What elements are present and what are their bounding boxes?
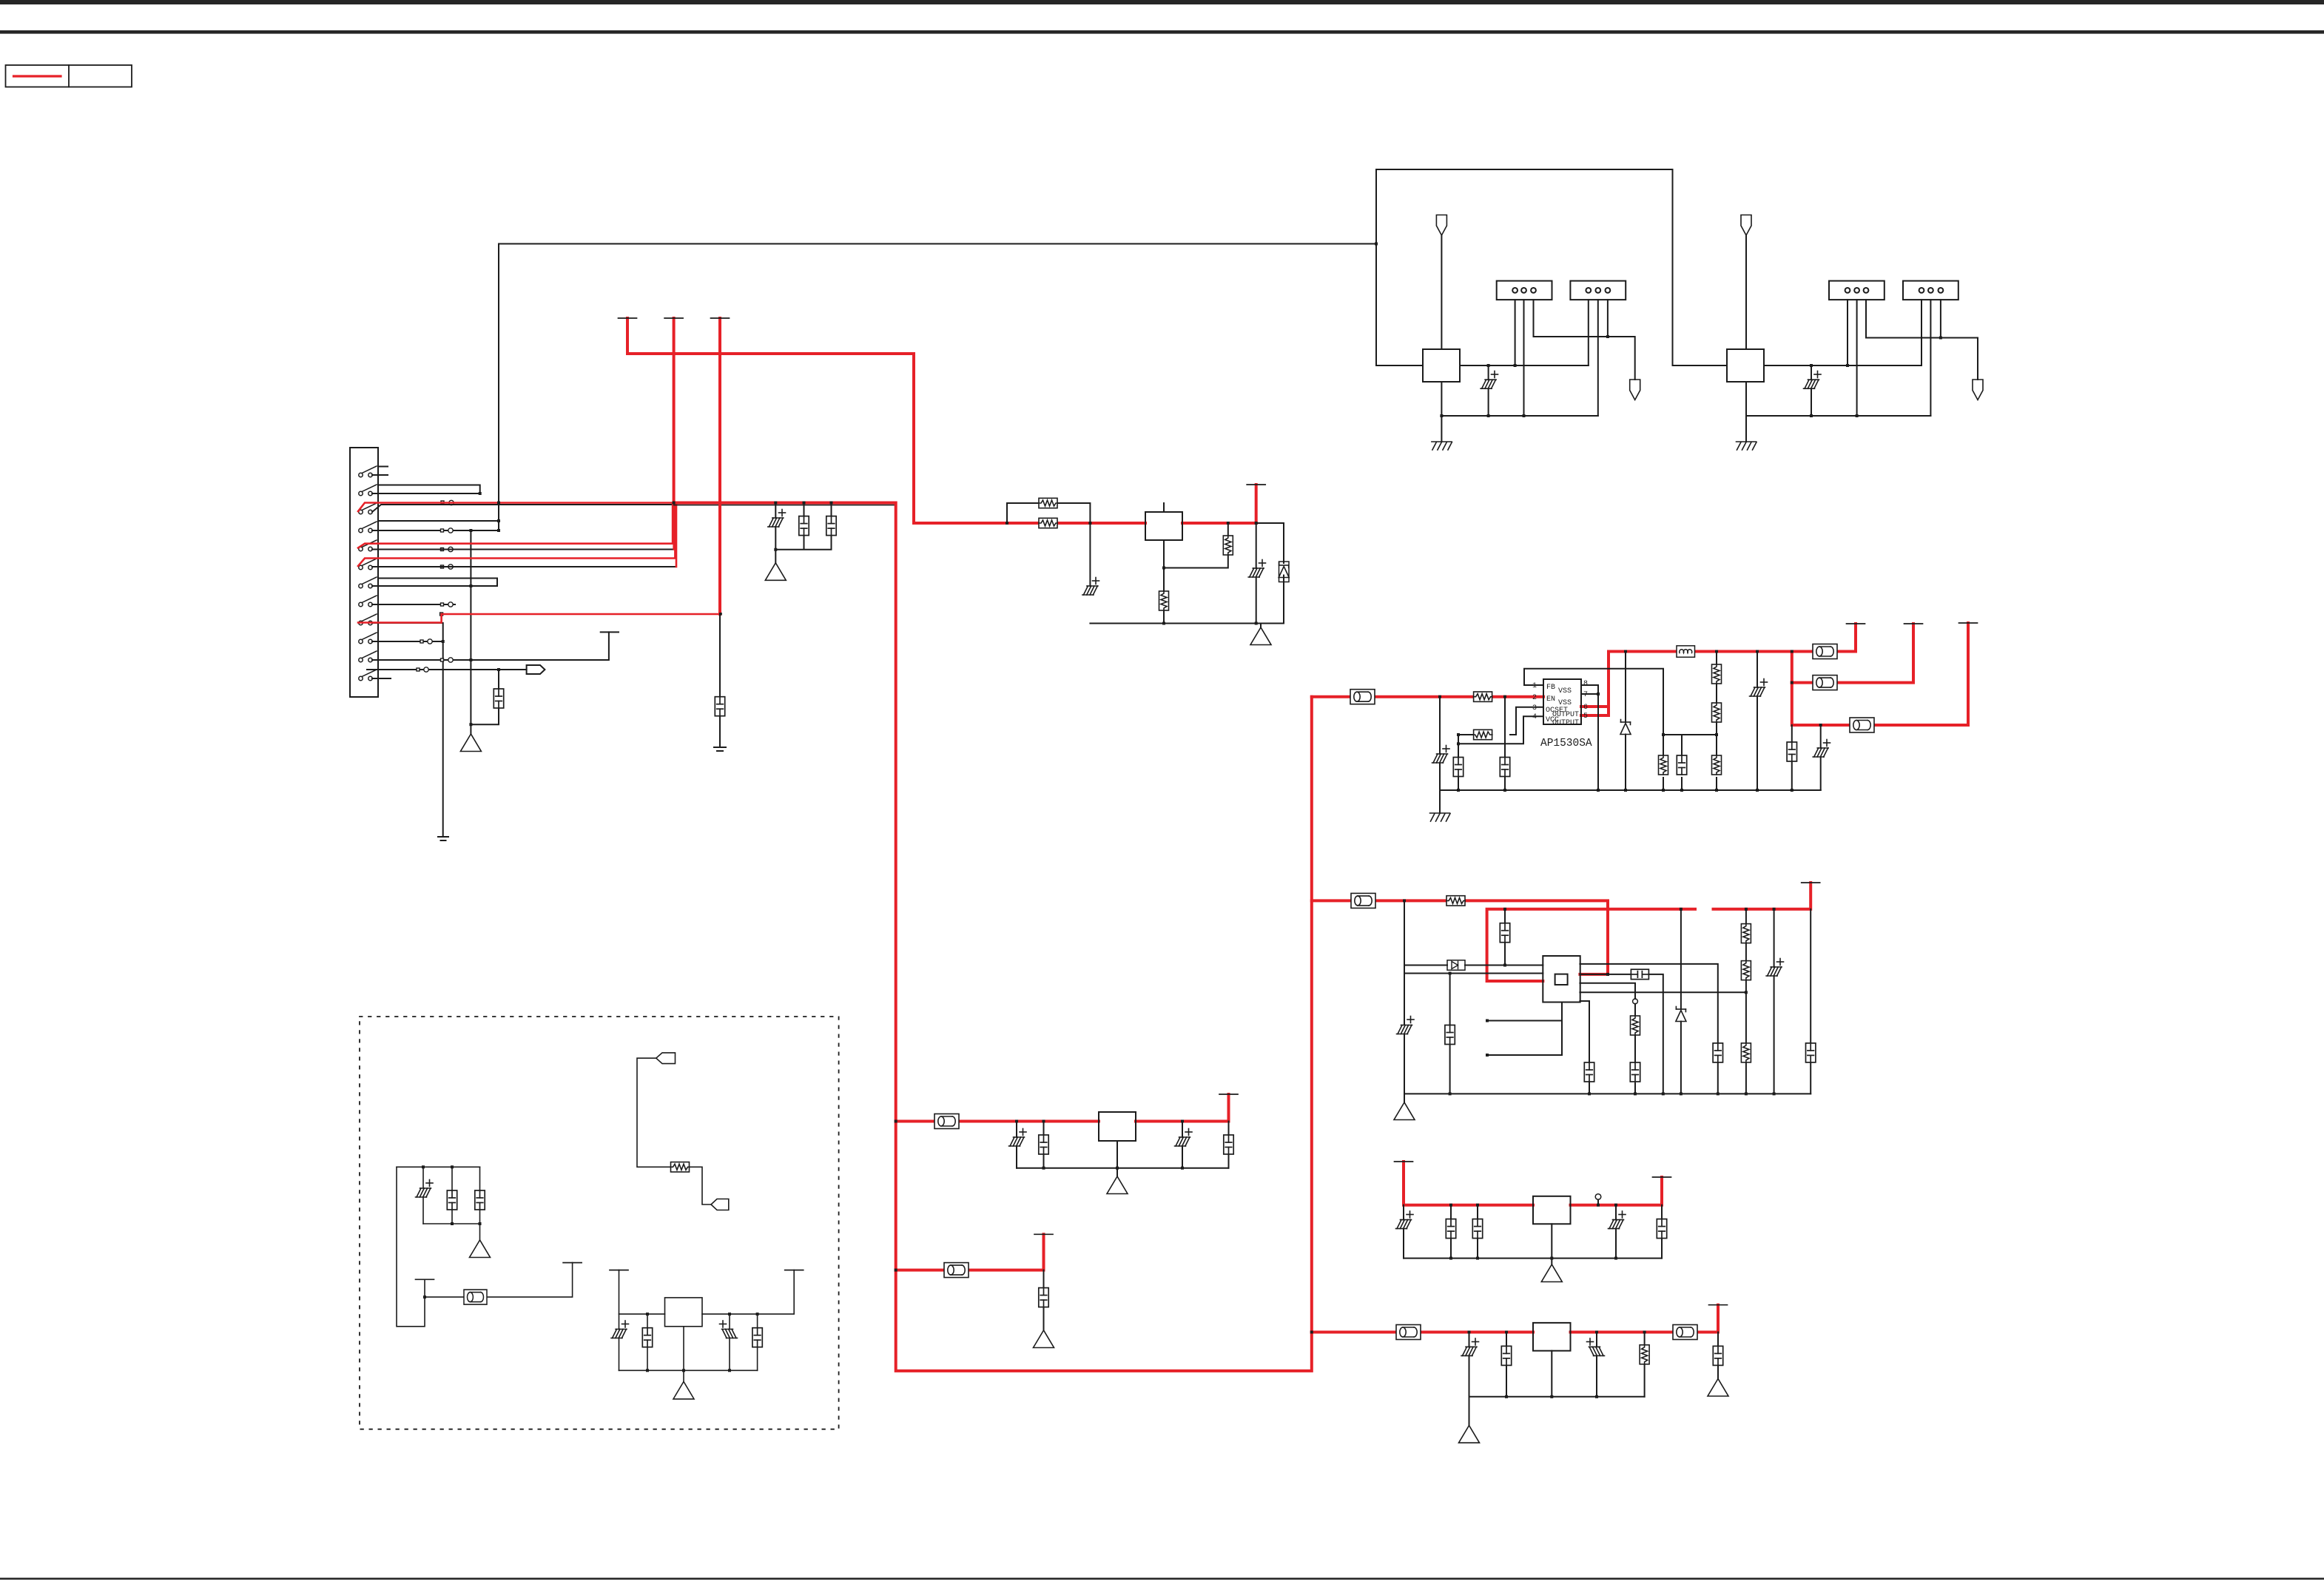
- red wire outputs join: [1581, 624, 1856, 715]
- switch row 5: [359, 540, 377, 551]
- capacitor Cfb: [1677, 755, 1686, 775]
- wire R bypass loop: [1007, 503, 1090, 523]
- junction rail h: [1756, 789, 1759, 792]
- wire block2 ground rail: [1746, 415, 1930, 417]
- wire U7 gnd pin: [1116, 1141, 1118, 1168]
- wire G1 bead line: [425, 1263, 573, 1298]
- ground row9: [438, 837, 448, 840]
- junction rail c: [1597, 789, 1600, 792]
- wire row3 black: [372, 505, 674, 512]
- plus sign G3 out: [720, 1321, 727, 1327]
- wire B cap col: [1043, 1270, 1045, 1330]
- junction pcap top reg2: [1773, 908, 1776, 911]
- IC U6 inner pad: [1555, 974, 1568, 985]
- ground triangle G3: [673, 1381, 694, 1399]
- switch row 11: [359, 651, 377, 662]
- junction pinc end: [1745, 991, 1748, 994]
- wire boot cap col: [1504, 909, 1506, 966]
- resistor Rfb4: [1712, 755, 1722, 775]
- junction rail i: [1791, 789, 1793, 792]
- polarized cap Cout1: [1750, 687, 1765, 696]
- junction A r1: [1043, 1167, 1045, 1170]
- power flag U4: [1741, 215, 1751, 236]
- junction D r2: [1550, 1395, 1553, 1398]
- wire P2 pin3: [1607, 300, 1609, 337]
- polarized cap A in: [1009, 1137, 1025, 1146]
- plus sign D in: [1472, 1338, 1479, 1345]
- junction U4 out cap: [1810, 364, 1813, 367]
- junction rail a: [1457, 789, 1460, 792]
- IC U5 AP1530SA box: [1543, 679, 1581, 724]
- net flag G2 bottom: [711, 1199, 729, 1210]
- junction out node: [1791, 650, 1793, 653]
- wire divider top col: [1716, 652, 1717, 791]
- wire bus bypass caps stubs: [775, 503, 831, 563]
- inductor L1: [1677, 646, 1695, 657]
- wire P4 pin3: [1940, 300, 1941, 337]
- junction block1 rail2: [1487, 414, 1490, 417]
- capacitor A in: [1039, 1135, 1048, 1154]
- red wire out branch3: [1792, 623, 1968, 725]
- junction U2 out1: [1227, 522, 1230, 525]
- junction rail r2e: [1680, 1092, 1683, 1095]
- svg-text:OUTPUT: OUTPUT: [1552, 711, 1579, 719]
- wire VSS pins: [1581, 685, 1598, 790]
- power flag U3: [1436, 215, 1446, 236]
- wire A gnd stub: [1116, 1168, 1118, 1176]
- junction EN cap2: [1503, 695, 1506, 698]
- earth ground U5: [1430, 813, 1451, 821]
- inline marker row10: [420, 640, 423, 643]
- junction rail r2g: [1745, 1092, 1748, 1095]
- net stub T G1: [416, 1278, 434, 1280]
- switch row 8: [359, 596, 377, 607]
- junction A r3: [1181, 1167, 1184, 1170]
- junction x636 row7: [469, 584, 472, 587]
- wire G3 gnd stub: [683, 1370, 684, 1381]
- wire D pcap col: [1469, 1332, 1470, 1397]
- wire row4 upper: [378, 520, 499, 522]
- wire block1 feed loop: [1376, 169, 1727, 365]
- junction x636 row4: [469, 529, 472, 532]
- wire row5 black: [372, 505, 674, 550]
- resistor U2 adj lower: [1159, 591, 1169, 610]
- plus sign A in: [1020, 1129, 1026, 1136]
- capacitor boot: [1500, 923, 1509, 943]
- wire row11: [372, 632, 609, 660]
- plus sign U2 out cap: [1259, 560, 1266, 567]
- svg-text:VSS: VSS: [1558, 687, 1572, 695]
- connector P1: [1497, 281, 1552, 300]
- junction A feed: [895, 1120, 897, 1123]
- header rule: [0, 30, 2324, 34]
- rail T-bar VCC1: [664, 317, 683, 319]
- wire row10: [372, 641, 443, 642]
- junction B feed: [895, 1269, 897, 1272]
- wire U4 output line: [1764, 365, 1921, 366]
- junction G3 r3: [728, 1369, 731, 1372]
- resistor EN series: [1474, 692, 1492, 701]
- junction out b3: [1819, 724, 1822, 727]
- junction A c1: [1015, 1120, 1018, 1123]
- capacitor col 2210: [1630, 1062, 1640, 1082]
- junction OCSET end: [1457, 733, 1460, 736]
- wire U3 output line: [1460, 365, 1589, 366]
- red wire A output: [1136, 1094, 1229, 1122]
- svg-text:OUTPUT: OUTPUT: [1552, 719, 1579, 727]
- capacitor C c2: [1472, 1219, 1482, 1239]
- junction rail r2d: [1662, 1092, 1665, 1095]
- red wire D input: [1312, 1331, 1533, 1334]
- wire divider col 2360: [1745, 909, 1747, 1094]
- wire U6 pin c: [1580, 991, 1746, 993]
- junction EN cap1: [1438, 695, 1441, 698]
- wire C gnd stub: [1551, 1259, 1552, 1264]
- junction VSS tie: [1597, 693, 1600, 695]
- wire bootstrap line: [1404, 965, 1543, 966]
- junction C d: [1614, 1204, 1617, 1207]
- junction G3 b: [728, 1313, 731, 1315]
- junction U3 out p1: [1514, 364, 1517, 367]
- junction rail d: [1624, 789, 1627, 792]
- wire P3 pin2: [1856, 300, 1858, 416]
- earth ground block1: [1432, 442, 1452, 450]
- junction row4 upper: [497, 519, 500, 522]
- junction U4 out p1: [1846, 364, 1849, 367]
- wire OCSET pin3: [1458, 707, 1543, 735]
- red wire row5b: [673, 504, 675, 550]
- junction C r3: [1550, 1257, 1553, 1260]
- resistor D out: [1640, 1345, 1649, 1364]
- resistor reg2 in: [1446, 896, 1465, 906]
- resistor Rfb3: [1659, 755, 1668, 775]
- wire P1 pin1: [1515, 300, 1516, 365]
- signal flag block1: [1630, 380, 1640, 400]
- plus sign C in: [1407, 1211, 1413, 1218]
- T-bar reg2 out: [1802, 882, 1820, 883]
- junction U2 rail2: [1255, 622, 1258, 625]
- title bar top: [0, 0, 2324, 4]
- ferrite bead A: [934, 1114, 959, 1129]
- ground triangle B: [1034, 1330, 1054, 1348]
- junction block1 pin3: [1606, 335, 1609, 338]
- T-bar D out: [1709, 1304, 1728, 1306]
- red wire row5: [358, 504, 673, 548]
- junction bus corner: [673, 502, 676, 505]
- junction G1 d: [479, 1222, 482, 1225]
- wire A cap col: [1043, 1122, 1045, 1168]
- wire G3 pcap col: [619, 1314, 620, 1370]
- wire G1 top: [397, 1166, 480, 1167]
- wire P1 pin2: [1523, 300, 1525, 416]
- junction block1 rail3: [1523, 414, 1526, 417]
- svg-text:FB: FB: [1546, 684, 1555, 692]
- polarized cap U2 out: [1248, 568, 1264, 577]
- red wire A input: [896, 1120, 1099, 1123]
- red rail U2 out T: [1255, 485, 1258, 523]
- wire G1 left loop: [397, 1167, 425, 1327]
- ground triangle U2: [1250, 627, 1271, 645]
- capacitor comp: [1631, 969, 1648, 979]
- T-bar out3: [1959, 622, 1978, 624]
- wire A cap out col: [1228, 1122, 1230, 1168]
- ferrite bead G1: [464, 1290, 487, 1304]
- testpoint circle reg2: [1633, 999, 1638, 1004]
- inline marker row5: [441, 548, 444, 551]
- footer rule: [0, 1578, 2324, 1580]
- IC U8 box: [1533, 1196, 1571, 1224]
- wire reg2 in col: [1404, 900, 1405, 1094]
- capacitor C out: [1657, 1219, 1666, 1239]
- junction bottom stub2: [1486, 1020, 1489, 1022]
- dashed box outline: [360, 1017, 839, 1429]
- svg-text:AP1530SA: AP1530SA: [1540, 738, 1592, 749]
- ground triangle D2: [1708, 1379, 1728, 1397]
- wire reg2 gnd stub: [1404, 1094, 1405, 1102]
- junction rail r2h: [1773, 1092, 1776, 1095]
- wire P4 pin1: [1921, 300, 1922, 365]
- wire C ground rail: [1404, 1258, 1662, 1259]
- T-bar A out: [1219, 1094, 1238, 1095]
- capacitor D final: [1713, 1346, 1722, 1365]
- wire U4 cap col: [1811, 365, 1812, 416]
- T-bar G3 out: [785, 1270, 804, 1271]
- capacitor bus C3: [826, 516, 836, 536]
- junction row9 railC: [719, 613, 722, 616]
- wire out cap col: [1791, 725, 1793, 790]
- junction fb 1959: [1449, 972, 1452, 975]
- junction G1 b: [451, 1165, 454, 1168]
- wire G1 bottom: [423, 1224, 480, 1240]
- wire A pcap out col: [1182, 1122, 1183, 1168]
- junction rail r2b: [1588, 1092, 1591, 1095]
- junction C c: [1597, 1204, 1600, 1207]
- junction boot cap bot: [1503, 964, 1506, 967]
- wire row9 to ground drop: [372, 623, 443, 837]
- capacitor C c1: [1446, 1219, 1455, 1239]
- ground triangle reg2: [1394, 1102, 1415, 1120]
- wire block1 ground rail: [1441, 415, 1597, 417]
- wire U2 in cap col: [1089, 523, 1091, 586]
- wire U6 pin corner: [1580, 1001, 1589, 1094]
- plus sign Cin: [1443, 746, 1449, 752]
- wire C pcap col: [1403, 1205, 1404, 1259]
- junction D b: [1505, 1331, 1508, 1334]
- junction bus gnd: [774, 548, 777, 551]
- switch row 12: [359, 670, 377, 681]
- wire C cap1 col: [1450, 1205, 1452, 1259]
- resistor OCSET: [1474, 730, 1492, 739]
- T-bar out2: [1904, 623, 1923, 624]
- wire C capout col: [1661, 1205, 1663, 1259]
- polarized cap A out: [1175, 1137, 1190, 1146]
- capacitor C1: [1453, 758, 1463, 777]
- wire G3 ground rail: [619, 1369, 758, 1371]
- junction reg2 red corner: [1606, 973, 1609, 976]
- inline marker row8: [441, 603, 444, 606]
- wire row4 lower: [372, 530, 499, 531]
- red wire row3: [358, 503, 674, 512]
- inline marker row11: [441, 658, 444, 661]
- wire P1 pin3: [1534, 300, 1635, 380]
- red wire B: [896, 1234, 1044, 1270]
- wire FB loop: [1524, 669, 1663, 735]
- ground triangle x636: [460, 734, 481, 752]
- wire G3 pcap out col: [729, 1314, 730, 1370]
- ground triangle bus: [765, 563, 786, 581]
- plus sign U2 in cap: [1093, 578, 1099, 584]
- wire row12 cap branch: [471, 670, 499, 724]
- ferrite bead D out: [1673, 1325, 1697, 1340]
- capacitor col 2148: [1584, 1062, 1594, 1082]
- T-bar B: [1034, 1233, 1053, 1235]
- switch row 6: [359, 559, 377, 570]
- plus sign U4 cap: [1814, 371, 1821, 378]
- legend box: [6, 65, 132, 87]
- wire D pcap out col: [1596, 1332, 1597, 1397]
- junction rail e: [1662, 789, 1665, 792]
- wire pcap col reg2: [1774, 909, 1775, 1094]
- switch row 9: [359, 614, 377, 625]
- capacitor G1 c2: [475, 1190, 485, 1210]
- ground triangle D: [1459, 1426, 1480, 1443]
- junction block1 rail1: [1440, 414, 1443, 417]
- zener diode U2: [1279, 562, 1289, 582]
- wire D out cap col: [1717, 1332, 1719, 1379]
- junction block2 pin3: [1939, 337, 1942, 340]
- IC U10 box: [665, 1298, 703, 1327]
- red rail VCC2 drop: [627, 318, 1007, 523]
- wire A pcap col: [1016, 1122, 1017, 1168]
- red rail VCC1 drop: [673, 318, 676, 503]
- svg-text:EN: EN: [1546, 695, 1555, 704]
- junction fb node: [1662, 733, 1665, 736]
- svg-text:VSS: VSS: [1558, 699, 1572, 707]
- wire P4 pin2: [1930, 300, 1931, 416]
- svg-text:4: 4: [1532, 713, 1537, 721]
- ferrite bead out1: [1813, 644, 1837, 659]
- switch row 2: [359, 485, 377, 496]
- wire U3 gnd drop: [1441, 382, 1442, 442]
- IC U7 box: [1099, 1112, 1136, 1141]
- wire P3 pin3: [1866, 300, 1978, 380]
- polarized cap reg2 out: [1766, 967, 1782, 976]
- inline marker row12: [417, 668, 420, 671]
- junction G3 c: [756, 1313, 759, 1315]
- wire D cap col: [1506, 1332, 1507, 1397]
- red power bus main: [674, 503, 1312, 1371]
- junction C r4: [1614, 1257, 1617, 1260]
- red wire reg2 output: [1487, 883, 1811, 981]
- plus sign D out: [1587, 1338, 1594, 1345]
- wire U2 ground rail: [1090, 623, 1284, 624]
- junction U2 in2: [1088, 522, 1091, 525]
- junction rail r2a: [1449, 1092, 1452, 1095]
- junction U2 out2: [1255, 522, 1258, 525]
- wire ground bus x636: [470, 530, 471, 734]
- switch row 3: [359, 503, 377, 514]
- T-bar G3 in: [610, 1270, 628, 1271]
- capacitor reg2 out: [1806, 1043, 1816, 1062]
- wire G2 flag drop: [637, 1058, 711, 1204]
- svg-text:2: 2: [1532, 694, 1537, 702]
- inline marker row9: [440, 613, 443, 616]
- ferrite bead EN: [1350, 690, 1375, 704]
- plus sign A out: [1185, 1129, 1192, 1136]
- resistor div3: [1741, 1043, 1751, 1062]
- capacitor G3 in: [642, 1328, 652, 1347]
- T-bar G1 line: [563, 1262, 582, 1264]
- plus sign reg2 out cap: [1777, 959, 1784, 966]
- wire zener col reg2: [1680, 909, 1682, 1094]
- wire VCC pin4: [1458, 716, 1543, 744]
- polarized cap on bus: [768, 518, 784, 527]
- junction bus x674: [497, 502, 500, 505]
- junction out b2: [1791, 681, 1793, 684]
- svg-text:8: 8: [1583, 680, 1588, 688]
- NC pin circle: [1597, 1200, 1599, 1205]
- junction fb node2: [1715, 733, 1718, 736]
- polarized cap D out: [1589, 1347, 1605, 1355]
- plus sign G1: [426, 1180, 433, 1187]
- junction A r2: [1116, 1167, 1119, 1170]
- wire U2 zener col: [1256, 523, 1284, 624]
- wire row6 black: [372, 505, 676, 567]
- wire divider link: [1663, 735, 1717, 790]
- junction G1 T: [423, 1295, 426, 1298]
- junction D r3: [1595, 1395, 1598, 1398]
- rail T-bar VCC3: [711, 317, 730, 319]
- junction zener top: [1680, 908, 1683, 911]
- wire row7: [372, 579, 497, 587]
- junction D d: [1643, 1331, 1646, 1334]
- wire U2 adj lower: [1163, 540, 1165, 624]
- T-bar out1: [1847, 623, 1865, 624]
- wire U3 vcc: [1441, 235, 1442, 349]
- plus sign U3 cap: [1492, 371, 1498, 378]
- junction U2 in1: [1006, 522, 1008, 525]
- wire U5 ground rail: [1440, 789, 1821, 791]
- capacitor reg2 fb: [1445, 1025, 1455, 1045]
- capacitor G1 c1: [447, 1190, 457, 1210]
- wire U2 gnd stub: [1260, 624, 1262, 628]
- ground triangle A: [1107, 1176, 1128, 1194]
- red wire C out: [1571, 1177, 1663, 1205]
- inline marker row4: [441, 529, 444, 532]
- junction C a: [1449, 1204, 1452, 1207]
- red wire LDO input: [1007, 522, 1145, 525]
- polarized cap Cout3: [1813, 748, 1828, 757]
- resistor R bypass: [1039, 498, 1057, 508]
- junction G3 r2: [682, 1369, 685, 1372]
- diode bootstrap: [1447, 960, 1465, 970]
- wire U6 pin b: [1580, 983, 1635, 1094]
- polarized cap U3: [1481, 380, 1496, 388]
- ferrite bead out3: [1850, 718, 1874, 732]
- T-bar C out: [1653, 1176, 1671, 1178]
- wire col C1: [1458, 735, 1459, 790]
- connector P4: [1903, 281, 1958, 300]
- resistor R series: [1039, 518, 1057, 528]
- junction pcap top: [1756, 650, 1759, 653]
- svg-text:1: 1: [1532, 682, 1537, 690]
- junction block2 rail1: [1810, 414, 1813, 417]
- junction rail r2c: [1634, 1092, 1637, 1095]
- capacitor D in: [1501, 1346, 1511, 1365]
- ferrite bead out2: [1813, 675, 1837, 690]
- junction D feed: [1310, 1331, 1313, 1334]
- wire U6 bottom pin: [1487, 1003, 1562, 1056]
